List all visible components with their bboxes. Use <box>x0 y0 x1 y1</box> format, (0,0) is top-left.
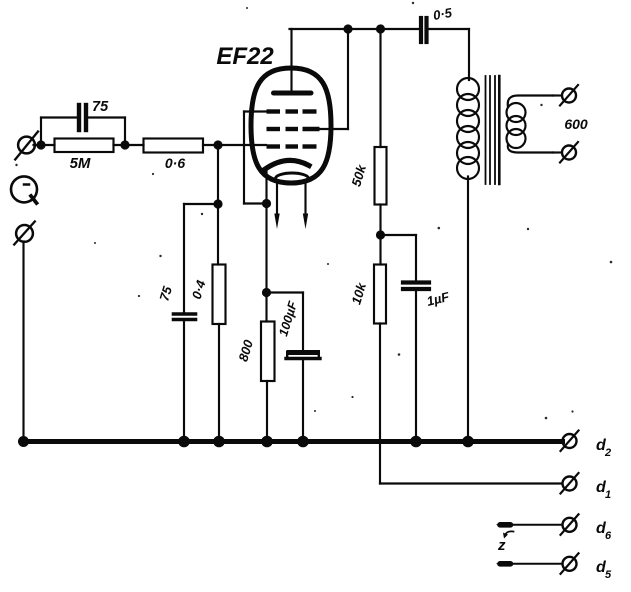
tube grid g3 dashes <box>267 109 317 113</box>
node A junction <box>36 140 45 149</box>
node E junction (cathode) <box>262 199 271 208</box>
marker z with arrow <box>503 531 514 538</box>
wire node D left to capacitor 75 branch <box>184 204 218 314</box>
resistor 5M <box>55 139 114 153</box>
resistor 800 <box>261 293 275 442</box>
svg-text:EF22: EF22 <box>216 43 274 70</box>
terminal input top <box>15 132 38 160</box>
capacitor 75 (parallel with 5M) <box>41 105 125 145</box>
transformer primary winding <box>457 78 479 179</box>
terminal secondary top <box>553 85 578 106</box>
pickup symbol <box>11 176 37 203</box>
wire input bottom to ground bus <box>22 242 24 442</box>
node I junction <box>376 230 385 239</box>
svg-text:6: 6 <box>605 530 612 542</box>
wire 0.6 to grid node <box>203 144 266 146</box>
node B junction <box>120 140 129 149</box>
svg-text:75: 75 <box>92 99 109 115</box>
bus junction 800 <box>261 436 273 448</box>
wire to d1 <box>380 482 562 484</box>
resistor 10k <box>374 235 386 484</box>
tube heater lead left with arrow <box>274 184 279 229</box>
wire anode lead up <box>290 29 292 93</box>
svg-text:1: 1 <box>605 489 611 501</box>
svg-text:5M: 5M <box>70 155 91 172</box>
svg-text:2: 2 <box>604 447 611 459</box>
wire cathode down <box>265 204 267 293</box>
svg-text:600: 600 <box>564 116 588 132</box>
node F junction <box>262 288 271 297</box>
wire g3 to cathode <box>244 112 267 204</box>
tube grid g2 dashes <box>267 127 320 131</box>
terminal input bottom <box>14 222 35 245</box>
capacitor 1uF <box>403 283 429 442</box>
svg-text:0·6: 0·6 <box>165 155 185 171</box>
tube grid g1 dashes <box>267 144 317 148</box>
tube heater lens <box>276 173 309 184</box>
bus junction transformer <box>462 436 474 448</box>
wire transformer primary bottom to bus <box>467 177 469 442</box>
tube heater lead right with arrow <box>303 182 308 229</box>
bus junction 0.4 <box>213 436 225 448</box>
node G junction (screen) <box>343 24 352 33</box>
bus junction 75 cap <box>178 436 190 448</box>
svg-text:5: 5 <box>605 569 612 581</box>
terminal d5 <box>561 553 579 574</box>
resistor 0.6 <box>144 139 204 153</box>
terminal d2 <box>561 431 579 452</box>
svg-text:z: z <box>497 537 506 554</box>
resistor 50k <box>375 29 387 235</box>
bus junction 100uF <box>297 436 309 448</box>
transformer secondary winding <box>507 96 554 153</box>
wire d6 with arrow <box>496 522 562 527</box>
ground bus <box>23 439 563 444</box>
capacitor 100uF <box>286 352 320 442</box>
wire node I to 1uF <box>381 235 417 281</box>
wire node F to 100uF <box>267 293 304 351</box>
bus junction 1uF <box>410 436 422 448</box>
wire d5 with arrow <box>496 561 562 566</box>
node C junction (grid) <box>213 140 222 149</box>
node D junction <box>213 199 222 208</box>
terminal d1 <box>561 473 579 494</box>
wire cathode lead <box>265 170 267 204</box>
wire top bus (anode to cap 0.5) <box>290 28 421 30</box>
wire input to node A <box>34 144 55 146</box>
capacitor 0.5 <box>421 18 469 42</box>
terminal secondary bottom <box>553 142 578 163</box>
tube anode plate <box>274 91 312 96</box>
wire grid node down <box>217 145 219 204</box>
wire screen grid to node G <box>318 29 348 129</box>
node H junction (50k top) <box>376 24 385 33</box>
wire cap 0.5 to transformer primary <box>468 29 470 80</box>
wire 5M to node B <box>114 144 144 146</box>
resistor 0.4 <box>213 204 226 442</box>
tube cathode dome <box>265 160 310 169</box>
transformer core <box>486 76 500 184</box>
bus junction left end <box>18 436 29 447</box>
tube EF22 envelope <box>251 68 331 183</box>
capacitor 75 (grid to ground) <box>174 314 196 442</box>
terminal d6 <box>561 514 579 535</box>
